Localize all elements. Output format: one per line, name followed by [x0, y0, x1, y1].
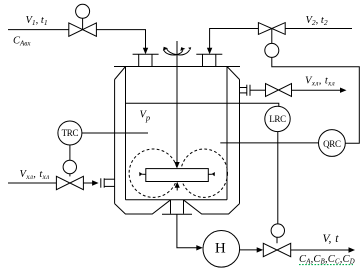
heater H [203, 231, 240, 268]
wire jacket outlet to valve [250, 89, 266, 91]
jacket outer wall right [239, 80, 241, 204]
arrow into heater [196, 245, 203, 250]
wire V2 feed line [210, 29, 352, 50]
svg-text:QRC: QRC [323, 139, 341, 149]
wire product outlet line [291, 249, 350, 251]
wire TRC sensor line [82, 132, 148, 134]
arrow into left top nozzle [143, 48, 148, 54]
circulation loop right (dashed) [181, 149, 228, 197]
green spellcheck underline [299, 264, 353, 266]
arrow product outlet [349, 247, 356, 252]
reactor vessel top [114, 66, 240, 68]
wire bottom outlet to heater [177, 214, 198, 248]
wire QRC to V2 valve actuator [272, 57, 360, 143]
arrow jacket outlet [340, 88, 347, 93]
wire heater to outlet valve [240, 249, 258, 251]
svg-text:Vр: Vр [140, 110, 151, 123]
arrow shaft onto impeller [174, 162, 179, 168]
jacket chamfer top left [115, 67, 126, 80]
impeller [146, 169, 209, 182]
jacket inlet nozzle [101, 178, 115, 187]
wire jacket outlet arrow line [292, 89, 342, 91]
wire TRC to inlet valve actuator [69, 145, 71, 160]
reactor inner wall right [226, 67, 228, 200]
jacket bottom right [184, 200, 240, 214]
small arrow at impeller left tip [139, 172, 146, 176]
valve on jacket outlet [266, 84, 292, 97]
svg-text:LRC: LRC [269, 114, 286, 124]
jacket bottom left [115, 200, 170, 214]
control valve on jacket inlet [56, 160, 83, 189]
control valve V1 [69, 4, 97, 36]
jacket outer wall left [114, 80, 116, 204]
small arrow at impeller right tip [208, 172, 215, 176]
arrow into jacket inlet [92, 180, 99, 185]
control valve on product outlet [263, 224, 290, 257]
svg-text:TRC: TRC [62, 128, 79, 138]
bottom outlet nozzle [162, 200, 192, 215]
top nozzle left [133, 54, 159, 66]
wire QRC sensor line [220, 142, 318, 144]
controller TRC [58, 121, 82, 145]
wire valve to jacket inlet nozzle [83, 182, 93, 184]
wire liquid level line to LRC [126, 103, 279, 106]
svg-text:H: H [215, 240, 226, 256]
reactor inner wall left [125, 67, 127, 200]
wire Vxl inlet line [8, 182, 56, 184]
control valve V2 [258, 23, 285, 58]
stirrer drive swirl [163, 47, 191, 55]
jacket outlet nozzle right [240, 85, 251, 96]
controller QRC [319, 130, 346, 157]
arrow up below impeller [175, 182, 180, 191]
stirrer shaft [176, 41, 178, 163]
arrow into outlet valve [257, 247, 264, 252]
wire LRC to outlet valve actuator [277, 132, 279, 224]
top nozzle right [196, 54, 222, 66]
wire V1 feed line [8, 30, 146, 49]
jacket chamfer top right [227, 67, 240, 80]
reactor inner flat bottom [126, 199, 228, 201]
svg-text:V, t: V, t [323, 233, 340, 245]
controller LRC [265, 106, 290, 131]
arrow into right top nozzle [207, 48, 212, 54]
circulation loop left (dashed) [129, 149, 177, 197]
